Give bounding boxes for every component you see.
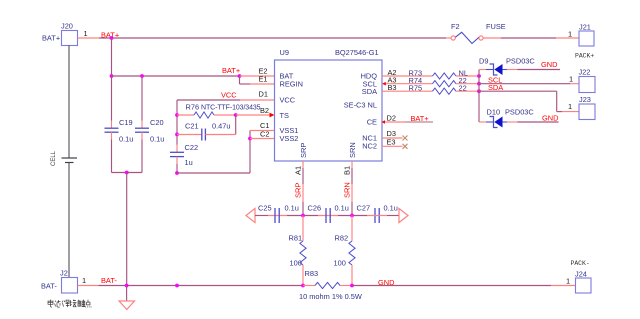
svg-text:SRP: SRP	[294, 183, 303, 198]
pin label E2	[259, 67, 268, 76]
net label GND	[378, 278, 394, 287]
resistor R82	[334, 234, 356, 268]
node	[125, 284, 129, 288]
fuse F2	[446, 22, 506, 44]
label 22	[459, 76, 467, 85]
resistor R74	[409, 76, 457, 87]
wire	[249, 131, 251, 174]
capacitor C26	[308, 204, 349, 224]
svg-text:R76: R76	[186, 103, 200, 112]
capacitor C21	[185, 122, 231, 141]
diode D10	[486, 108, 534, 128]
wire	[177, 114, 194, 116]
svg-text:C21: C21	[185, 122, 199, 131]
wire J21 pin stub	[556, 37, 579, 39]
connector J20	[42, 22, 88, 46]
wire	[303, 285, 315, 287]
svg-text:BAT+: BAT+	[42, 34, 60, 43]
svg-text:0.1u: 0.1u	[119, 135, 133, 144]
node	[350, 284, 354, 288]
node	[477, 74, 481, 78]
svg-text:SRN: SRN	[343, 182, 352, 198]
wire VSS2 stub	[250, 138, 275, 140]
op-amp U9 BQ27546-G1	[275, 48, 383, 161]
node	[175, 113, 179, 117]
net label BAT+ mid	[222, 66, 240, 75]
wire BAT+ rail top	[99, 37, 446, 39]
wire SDA to J23	[479, 91, 562, 111]
svg-text:VSS2: VSS2	[280, 134, 299, 143]
wire	[456, 83, 479, 85]
node	[175, 133, 179, 137]
wire fuse to J21	[501, 37, 556, 39]
battery cell	[51, 150, 77, 166]
svg-text:CELL: CELL	[51, 150, 57, 166]
connector J2	[41, 269, 86, 294]
node	[175, 284, 179, 288]
svg-text:NC2: NC2	[362, 142, 377, 151]
svg-text:SDA: SDA	[362, 87, 377, 96]
wire NC1 stub	[382, 137, 403, 139]
svg-text:1: 1	[82, 276, 86, 285]
capacitor C19	[105, 118, 134, 144]
svg-text:R83: R83	[305, 269, 319, 278]
wire	[141, 132, 143, 172]
svg-text:C2: C2	[260, 129, 269, 138]
svg-text:FUSE: FUSE	[486, 22, 506, 31]
svg-text:VCC: VCC	[221, 91, 237, 100]
capacitor C27	[357, 204, 398, 224]
connector J23	[568, 95, 595, 120]
label NL	[459, 68, 468, 77]
svg-text:1: 1	[84, 29, 88, 38]
wire E1 stub	[250, 83, 275, 85]
svg-text:SE-C3 NL: SE-C3 NL	[344, 101, 377, 110]
wire E1 branch	[240, 76, 251, 84]
svg-text:1: 1	[568, 30, 572, 39]
wire SRP pin	[302, 161, 304, 216]
svg-text:B2: B2	[260, 106, 269, 115]
resistor R73	[409, 68, 457, 79]
wire D10 to GND	[518, 121, 559, 123]
svg-text:C22: C22	[185, 143, 199, 152]
wire	[351, 265, 353, 285]
pin label A2	[388, 68, 397, 77]
wire gnd drop	[126, 173, 128, 286]
port SRN arrow right	[399, 209, 408, 223]
svg-text:R82: R82	[335, 234, 349, 243]
wire	[479, 69, 486, 71]
pin label E1	[259, 75, 268, 84]
wire	[456, 90, 479, 92]
wire J2 stub	[78, 285, 99, 287]
svg-text:J21: J21	[579, 23, 591, 32]
net label SRP	[294, 183, 303, 198]
port SRP arrow left	[246, 209, 255, 223]
wire C21 left lead	[177, 134, 202, 136]
net label SDA	[488, 83, 503, 92]
svg-text:0.1u: 0.1u	[150, 135, 164, 144]
pin label B2	[260, 106, 269, 115]
node	[234, 113, 238, 117]
svg-text:PSD03C: PSD03C	[505, 108, 534, 117]
wire VSS1 stub	[250, 130, 275, 132]
wire J22 stub	[570, 83, 579, 85]
svg-text:1: 1	[566, 277, 570, 286]
svg-text:CE: CE	[367, 118, 377, 127]
wire BAT- rail	[98, 285, 303, 287]
wire	[302, 216, 304, 242]
svg-text:D1: D1	[259, 90, 268, 99]
ground	[119, 286, 135, 310]
svg-text:GND: GND	[378, 278, 394, 287]
svg-text:E3: E3	[387, 137, 396, 146]
wire cap rail	[255, 215, 318, 217]
svg-text:0.1u: 0.1u	[384, 204, 398, 213]
pin label D3	[387, 129, 396, 138]
svg-text:E1: E1	[259, 75, 268, 84]
net label BAT+ CE	[411, 114, 429, 123]
node	[350, 214, 354, 218]
wire SCL to J22	[479, 83, 570, 85]
svg-text:R81: R81	[289, 234, 303, 243]
wire	[340, 285, 352, 287]
svg-text:C27: C27	[357, 204, 371, 213]
label 22	[459, 83, 467, 92]
svg-text:A1: A1	[294, 166, 303, 175]
node	[125, 171, 129, 175]
net label BAT-	[101, 276, 117, 285]
net label GND	[542, 113, 558, 122]
wire	[112, 172, 143, 174]
pin label D2	[387, 113, 396, 122]
wire	[318, 215, 338, 217]
wire SCL stub	[382, 83, 433, 85]
wire	[367, 215, 399, 217]
svg-text:GND: GND	[542, 113, 558, 122]
svg-text:BAT-: BAT-	[101, 276, 117, 285]
pin label D1	[259, 90, 268, 99]
node	[175, 171, 179, 175]
wire	[214, 114, 236, 116]
svg-text:C26: C26	[308, 204, 322, 213]
wire	[141, 76, 143, 128]
wire SRN pin	[351, 161, 353, 216]
node	[110, 74, 114, 78]
svg-text:REGIN: REGIN	[280, 80, 303, 89]
wire E2 stub	[240, 75, 275, 77]
pin label B1	[343, 166, 352, 175]
wire BAT+ vertical	[111, 38, 113, 76]
svg-text:0.1u: 0.1u	[335, 204, 349, 213]
svg-text:1: 1	[569, 75, 573, 84]
svg-text:J20: J20	[61, 22, 73, 31]
wire	[111, 76, 113, 128]
svg-text:0.1u: 0.1u	[285, 204, 299, 213]
wire BAT+ rail mid	[112, 75, 241, 77]
connector J24	[566, 260, 591, 293]
node	[140, 74, 144, 78]
net label VCC	[221, 91, 237, 100]
wire D9 corner	[478, 70, 480, 123]
net label GND	[541, 60, 557, 69]
net label SCL	[488, 75, 502, 84]
wire cell top	[68, 46, 70, 159]
wire NC2 stub	[382, 145, 403, 147]
svg-text:100: 100	[290, 259, 302, 268]
wire D1 stub	[240, 99, 275, 101]
pin label A3	[388, 76, 397, 85]
pin label E3	[387, 137, 396, 146]
svg-text:NTC-TTF-103/3435: NTC-TTF-103/3435	[201, 105, 261, 112]
node	[238, 74, 242, 78]
wire GND rail	[352, 285, 551, 287]
svg-text:U9: U9	[280, 48, 289, 57]
svg-text:VCC: VCC	[280, 95, 296, 104]
svg-text:GND: GND	[541, 60, 557, 69]
svg-text:10 mohm 1% 0.5W: 10 mohm 1% 0.5W	[299, 292, 362, 301]
wire SDA stub	[382, 90, 433, 92]
resistor R76	[186, 103, 261, 119]
node	[477, 82, 481, 86]
connector J22	[569, 68, 595, 93]
svg-text:D2: D2	[387, 113, 396, 122]
svg-text:100: 100	[334, 259, 346, 268]
pin label A1	[294, 166, 303, 175]
resistor R81	[289, 234, 307, 268]
wire	[111, 132, 113, 172]
svg-text:0.47u: 0.47u	[212, 122, 231, 131]
net label BAT+ top	[101, 31, 119, 40]
wire	[338, 215, 367, 217]
svg-text:C25: C25	[258, 204, 272, 213]
node	[301, 284, 305, 288]
svg-text:D10: D10	[487, 108, 501, 117]
resistor R83	[299, 269, 362, 301]
svg-text:1: 1	[568, 102, 572, 111]
pin label B3	[388, 83, 397, 92]
svg-text:PACK-: PACK-	[571, 260, 590, 267]
pin label C1	[260, 121, 269, 130]
diode D9	[479, 57, 535, 76]
node	[248, 137, 252, 141]
svg-text:B1: B1	[343, 166, 352, 175]
wire	[235, 115, 237, 134]
svg-text:PSD03C: PSD03C	[506, 57, 535, 66]
wire TS stub	[236, 114, 270, 116]
pin arrow CE	[382, 120, 386, 124]
wire CE stub	[385, 121, 405, 123]
svg-text:J2: J2	[60, 269, 68, 278]
wire VCC vertical	[176, 100, 178, 152]
svg-text:BAT+: BAT+	[411, 114, 429, 123]
svg-text:SRN: SRN	[348, 142, 357, 158]
net label SRN	[343, 182, 352, 198]
pin label C2	[260, 129, 269, 138]
svg-text:J23: J23	[579, 95, 591, 104]
wire	[176, 157, 178, 173]
svg-text:1u: 1u	[185, 158, 193, 167]
svg-text:C19: C19	[119, 118, 133, 127]
svg-text:R75: R75	[409, 83, 423, 92]
svg-text:F2: F2	[451, 22, 460, 31]
annotation chinese	[48, 300, 91, 308]
pin arrow TS	[270, 113, 275, 118]
node	[301, 214, 305, 218]
wire D9 to GND	[518, 69, 561, 71]
svg-text:J22: J22	[579, 68, 591, 77]
svg-text:BAT-: BAT-	[41, 282, 57, 291]
no-connect X	[403, 136, 408, 141]
svg-text:PACK+: PACK+	[575, 53, 594, 60]
no-connect X	[403, 144, 408, 149]
connector J21	[568, 23, 594, 60]
capacitor C20	[135, 118, 164, 144]
wire VCC	[177, 99, 240, 101]
wire CE	[405, 121, 433, 123]
resistor R75	[409, 83, 457, 94]
wire	[302, 265, 304, 285]
pin arrow SCL	[382, 82, 386, 86]
wire	[351, 216, 353, 242]
svg-text:BQ27546-G1: BQ27546-G1	[335, 48, 379, 57]
wire J20 pin stub	[78, 37, 100, 39]
wire	[177, 172, 250, 174]
wire	[479, 121, 486, 123]
wire cell bottom	[68, 163, 70, 278]
svg-text:22: 22	[459, 83, 467, 92]
svg-text:BAT+: BAT+	[222, 66, 240, 75]
wire	[456, 75, 479, 77]
node BAT+ junction top	[110, 36, 114, 40]
node	[477, 89, 481, 93]
wire C21 right lead	[205, 134, 235, 136]
wire J24 stub	[551, 285, 576, 287]
wire HDQ stub	[382, 75, 433, 77]
wire J23 stub	[562, 111, 579, 113]
svg-text:J24: J24	[575, 270, 587, 279]
svg-text:D9: D9	[479, 57, 488, 66]
capacitor C25	[258, 204, 299, 224]
svg-text:SRP: SRP	[299, 143, 308, 158]
capacitor C22	[170, 143, 198, 167]
svg-text:C20: C20	[150, 118, 164, 127]
svg-text:TS: TS	[280, 111, 290, 120]
